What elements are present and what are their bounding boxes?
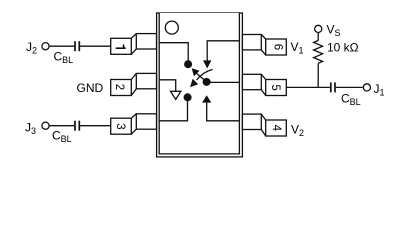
arrowhead pin6 down xyxy=(203,60,211,68)
pin 2 xyxy=(111,73,157,95)
arrowhead pin4 up xyxy=(202,95,211,102)
pin 5 xyxy=(242,74,286,95)
wire common node to pin5 internal xyxy=(207,81,240,83)
analog ground triangle xyxy=(171,91,181,99)
capacitor CBL (J2 branch) xyxy=(75,41,79,51)
wire VS to resistor xyxy=(317,33,319,41)
pin 6 xyxy=(242,35,286,56)
node J2 terminal xyxy=(42,43,49,50)
toggle motion arc xyxy=(197,69,213,80)
wire CBL to pin 1 xyxy=(80,45,111,47)
svg-text:5: 5 xyxy=(269,84,281,90)
wire pin5 to resistor junction and CBL xyxy=(286,86,330,88)
IC package body xyxy=(157,13,243,157)
wire CBL to J1 xyxy=(336,86,363,88)
pin 4 xyxy=(242,114,286,136)
switch throw node A xyxy=(184,60,192,68)
switch wiper arm to A xyxy=(197,74,207,82)
capacitor CBL (J1 branch) xyxy=(331,82,335,92)
wire pin1 internal to throw node xyxy=(159,43,188,61)
svg-text:3: 3 xyxy=(114,123,126,129)
pin 1 xyxy=(111,34,157,55)
wire pin2 internal to analog ground xyxy=(159,80,176,92)
wire pin6 internal with down arrow xyxy=(207,41,239,61)
svg-text:10 kΩ: 10 kΩ xyxy=(327,40,359,54)
pin 1 number xyxy=(116,45,126,49)
wire J2 to CBL cap xyxy=(49,45,74,47)
wire CBL to pin 3 xyxy=(80,125,111,127)
node VS terminal xyxy=(315,25,322,32)
wire J3 to CBL cap xyxy=(49,125,74,127)
svg-text:4: 4 xyxy=(270,125,282,132)
switch throw node B xyxy=(184,93,192,101)
pin 3 xyxy=(111,114,157,134)
svg-text:GND: GND xyxy=(77,81,104,95)
node J3 terminal xyxy=(42,122,49,129)
wire pin4 internal with up arrow xyxy=(207,102,240,121)
switch common node xyxy=(203,78,211,86)
wire resistor to pin5 wire junction xyxy=(317,63,319,87)
toggle arc arrowhead toward B xyxy=(190,79,198,88)
node J1 terminal xyxy=(363,84,370,91)
capacitor CBL (J3 branch) xyxy=(75,121,79,131)
wiper arrowhead toward A xyxy=(192,68,200,76)
resistor 10k zigzag xyxy=(314,41,323,64)
wire pin3 internal to throw node B xyxy=(159,101,187,121)
svg-text:6: 6 xyxy=(271,44,283,50)
svg-text:2: 2 xyxy=(113,84,125,90)
pin 1 indicator circle xyxy=(165,21,178,34)
